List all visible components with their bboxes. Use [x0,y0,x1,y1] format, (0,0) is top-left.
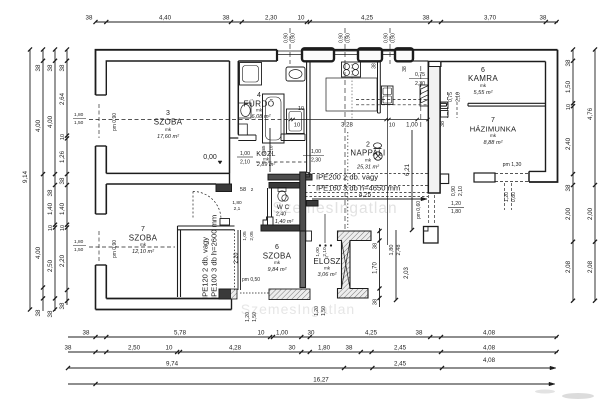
svg-text:38: 38 [47,189,54,196]
svg-text:2,48: 2,48 [396,245,402,256]
bottom dimension chain row 3 [66,357,556,370]
svg-text:4,00: 4,00 [35,246,42,259]
svg-text:pm 0,50: pm 0,50 [242,277,260,283]
szoba6 dotted wall right [234,230,236,290]
svg-text:38: 38 [416,330,423,337]
svg-text:30: 30 [308,330,315,337]
svg-text:10: 10 [60,225,66,231]
svg-text:1,80: 1,80 [74,112,84,118]
svg-text:2,10: 2,10 [322,247,328,257]
svg-text:0,85: 0,85 [261,145,266,154]
svg-text:3,28: 3,28 [341,123,353,129]
svg-text:1,00: 1,00 [276,330,289,337]
svg-text:2,1: 2,1 [234,206,241,212]
top wall pier 2 [358,48,382,61]
left dimension chain column 2 [35,47,45,316]
kitchen axis dashed vertical [344,64,346,230]
vertical dashed axes through top windows [289,28,291,64]
svg-text:1,20: 1,20 [314,306,320,316]
svg-text:6,21: 6,21 [404,163,411,176]
hatch step right of pillar [231,289,238,299]
fürdő bottom wall right piece [281,134,305,141]
svg-text:4,25: 4,25 [365,330,378,337]
svg-text:2,45: 2,45 [394,345,407,352]
door swing szoba7 [193,192,221,220]
svg-text:38: 38 [565,59,572,66]
beam dashed lines over terrace opening [305,192,428,194]
svg-text:1,00: 1,00 [406,123,418,129]
svg-text:1,20: 1,20 [245,312,251,322]
top wall pier 3 [395,48,413,61]
entrance pillar I-block [338,231,372,298]
házimunka door opening dashes [495,172,529,174]
top wall inner line kamra with flue notch [441,61,546,63]
wc bottom wall [261,225,300,231]
svg-text:mk: mk [480,83,487,88]
window parapet labels left wall window2 [73,239,86,253]
svg-text:1,00: 1,00 [311,149,321,155]
közl door jamb line [269,128,271,172]
interior vertical wall szoba3 / fürdő [230,61,239,173]
svg-text:SZOBA: SZOBA [154,118,183,127]
svg-text:9,74: 9,74 [166,361,179,368]
right exterior wall [529,50,558,182]
svg-text:pm 0,60: pm 0,60 [416,201,422,219]
svg-text:2,03: 2,03 [404,267,410,279]
dotted line szoba6 bottom [240,292,270,294]
vertical dim line 6,21 [411,130,413,230]
svg-text:16,27: 16,27 [313,377,329,384]
vertical line with 2,20 near szoba6 [240,230,242,290]
svg-text:2,40: 2,40 [565,137,572,150]
svg-text:IPE100 3 db h=2600 mm: IPE100 3 db h=2600 mm [210,215,219,299]
svg-text:1,80: 1,80 [318,345,331,352]
svg-text:38: 38 [35,64,42,71]
svg-text:3,06 m²: 3,06 m² [318,272,338,278]
bottom exterior wall left section [96,299,232,310]
svg-text:2,45: 2,45 [394,361,407,368]
central wall lower stub with closet box [424,227,439,244]
svg-text:mk: mk [256,108,263,113]
svg-text:0,75: 0,75 [448,92,454,102]
svg-text:W C: W C [277,204,290,211]
svg-text:38: 38 [35,309,42,316]
svg-text:38: 38 [373,243,379,249]
svg-text:38: 38 [47,310,54,317]
right dimension chain column A [565,47,575,302]
left wall window 2 axis [96,264,107,266]
top exterior wall right section outer line [302,49,558,51]
shower tray fürdő [240,63,262,86]
svg-text:10: 10 [566,104,572,110]
left dimension chain column 4 [59,47,69,309]
fürdő bottom wall left piece [238,135,256,141]
svg-text:mk: mk [365,158,372,163]
svg-text:mk: mk [274,260,281,265]
svg-text:1,40 m²: 1,40 m² [275,219,293,225]
wc left step piece [263,217,273,225]
bathtub fürdő [263,94,285,143]
left exterior wall lower segment [96,265,107,310]
svg-text:2,00: 2,00 [587,207,594,220]
left wall window 1 axis [96,145,107,147]
svg-text:1,26: 1,26 [59,150,66,163]
svg-text:4,25: 4,25 [359,192,372,199]
svg-text:4,08: 4,08 [483,345,496,352]
right dimension chain column B [587,47,597,302]
svg-text:38: 38 [372,63,378,69]
svg-text:2: 2 [251,187,254,192]
svg-text:2,10: 2,10 [269,145,274,154]
svg-text:10: 10 [166,345,173,352]
svg-text:mk: mk [165,127,172,132]
svg-text:mk: mk [263,157,270,162]
wall between kamra and házimunka [468,103,546,106]
stairs left of central wall [420,85,428,106]
top wall fürdő segment inner line [238,60,277,62]
kamra shelf fixtures right of central wall [441,102,449,109]
svg-text:1,40: 1,40 [59,202,66,215]
svg-text:9,84 m²: 9,84 m² [268,267,288,273]
dashed door verticals below házimunka door [504,183,506,210]
svg-text:38: 38 [59,177,66,184]
wc right wall / elősz left wall upper [300,172,306,231]
pillar step at wall end [216,184,232,192]
svg-text:12,10 m²: 12,10 m² [132,249,155,255]
svg-text:0,90: 0,90 [346,33,352,43]
kamra door stub and dashes [440,103,446,106]
svg-text:30: 30 [289,345,296,352]
svg-text:1,50: 1,50 [74,120,84,126]
svg-text:1,00: 1,00 [240,151,250,157]
top wall window A (fürdő) [277,50,302,52]
vertical dim line terrace 38/1,70/38 [379,228,381,307]
left dimension chain column 1 overall 9,14 [22,47,32,311]
svg-text:1,50: 1,50 [74,247,84,253]
left exterior wall upper segment with top wall left part [96,50,278,95]
svg-text:pm 0,90: pm 0,90 [112,240,118,258]
kitchen peninsula thin wall [378,62,381,113]
svg-text:2,08: 2,08 [565,260,572,273]
svg-text:pm 1,30: pm 1,30 [503,162,522,168]
svg-text:NAPPALI: NAPPALI [350,149,385,158]
svg-text:1,80: 1,80 [451,209,461,215]
svg-text:2,30: 2,30 [311,158,321,164]
svg-text:4,40: 4,40 [159,15,172,22]
wc upper wall bar [268,174,312,180]
svg-text:5,78: 5,78 [174,330,187,337]
svg-text:IPE200 2 db. vagy: IPE200 2 db. vagy [316,173,378,182]
svg-text:2,50: 2,50 [128,345,141,352]
svg-text:1,40: 1,40 [47,202,54,215]
svg-text:8,88 m²: 8,88 m² [484,140,504,146]
svg-text:2,40: 2,40 [276,212,286,218]
washing machine fürdő [287,109,305,134]
svg-text:4,25: 4,25 [361,15,374,22]
svg-text:10: 10 [298,15,305,22]
svg-text:1,70: 1,70 [373,262,379,274]
házimunka bottom wall left piece [474,173,495,182]
top dimension chain [86,15,559,25]
dimension arrow line 4,25 nappali [312,198,427,200]
svg-text:pm 0,90: pm 0,90 [112,113,118,131]
bottom dimension chain row 2 [65,345,559,355]
svg-text:1,80: 1,80 [74,239,84,245]
svg-text:38: 38 [59,302,66,309]
svg-text:38: 38 [59,64,66,71]
svg-text:0,75: 0,75 [415,72,425,78]
svg-text:0,00: 0,00 [203,154,217,161]
svg-text:38: 38 [47,64,54,71]
svg-text:0,90: 0,90 [384,33,390,43]
niche edge at x412 [412,50,414,61]
svg-text:mk: mk [140,242,147,247]
kitchen counter outline [326,78,377,111]
elősz wall bump [306,231,312,241]
svg-text:2,10: 2,10 [456,92,462,102]
wc left wall lines [268,188,272,225]
bottom dimension chain row 1 [68,330,559,340]
svg-text:38: 38 [540,15,547,22]
svg-text:10: 10 [389,123,395,129]
svg-text:10: 10 [60,134,66,140]
svg-text:38: 38 [83,330,90,337]
svg-text:mk: mk [490,133,497,138]
dimension line at y119 kitchen [289,118,430,129]
svg-text:4: 4 [257,92,261,99]
svg-text:1,20: 1,20 [504,192,510,202]
svg-text:4,76: 4,76 [587,107,594,120]
svg-text:KAMRA: KAMRA [468,74,498,83]
top wall window C [382,50,395,52]
svg-text:2,89 m²: 2,89 m² [256,162,275,168]
wc toilet fürdő [238,124,247,135]
svg-text:2,30: 2,30 [265,15,278,22]
washbasin cabinet fürdő top right [286,67,305,81]
svg-text:1,50: 1,50 [252,312,258,322]
svg-text:4,08: 4,08 [483,330,496,337]
svg-text:1,80: 1,80 [232,200,242,206]
svg-text:2,05: 2,05 [249,231,255,241]
svg-text:4,28: 4,28 [229,345,242,352]
stair axis dashed [420,66,422,130]
svg-text:38: 38 [373,299,379,305]
svg-text:0,90: 0,90 [391,33,397,43]
svg-text:1,80: 1,80 [389,245,395,256]
svg-text:6: 6 [481,67,485,74]
central wall door bump [440,174,449,184]
kitchen appliance box [382,86,394,105]
svg-text:SzemesIngatlan: SzemesIngatlan [272,200,397,217]
svg-text:2: 2 [366,142,370,149]
svg-text:4,00: 4,00 [35,119,42,132]
nappali south wall piece [307,201,319,207]
svg-text:38: 38 [402,66,408,72]
washbasin fürdő [238,103,251,118]
svg-text:0,90: 0,90 [291,33,297,43]
interior wall between szoba3 and szoba7 [106,173,229,184]
elősz left wall lower part [300,231,306,288]
svg-text:2,50: 2,50 [47,259,54,272]
central thick wall nappali/kamra [428,62,440,194]
svg-text:mk: mk [324,266,331,271]
svg-text:38: 38 [440,121,446,127]
svg-text:38: 38 [223,15,230,22]
wc room toilet [278,191,286,201]
vertical dim line 1,80/2,48 [395,230,397,300]
datum dashed line through közl [256,161,306,163]
svg-text:2,10: 2,10 [240,160,250,166]
svg-text:9,14: 9,14 [22,170,29,183]
svg-text:17,60 m²: 17,60 m² [157,134,180,140]
szoba6 planned wall rectangle top [178,226,235,230]
wc top wall [269,183,300,189]
top wall window B [334,50,358,52]
svg-text:4,08: 4,08 [483,357,496,364]
dashed lines wall stub to door [428,195,430,225]
svg-text:0,90: 0,90 [284,33,290,43]
svg-text:7: 7 [141,226,145,233]
svg-text:0,90: 0,90 [451,186,457,196]
svg-text:0,80: 0,80 [511,192,517,202]
svg-text:58: 58 [240,187,246,193]
svg-text:10: 10 [48,225,54,231]
svg-text:38: 38 [86,15,93,22]
kitchen stove with burners [342,62,361,77]
svg-text:1,50: 1,50 [321,306,327,316]
svg-text:10: 10 [294,123,300,129]
svg-text:3,70: 3,70 [484,15,497,22]
extension line through nappali [387,86,389,245]
svg-text:6,08 m²: 6,08 m² [252,114,272,120]
left exterior wall middle segment [96,146,107,214]
svg-text:4,00: 4,00 [47,115,54,128]
dashed passage lines kitchen to kamra door [356,99,428,101]
svg-text:2,20: 2,20 [59,254,66,267]
svg-text:1,05: 1,05 [242,231,248,241]
window parapet labels left wall window1 [73,112,86,126]
svg-text:38: 38 [346,345,353,352]
svg-text:2,10: 2,10 [458,186,464,196]
bottom dimension chain row 4 total 16,27 [68,377,555,387]
svg-text:2,20: 2,20 [234,253,240,264]
left dimension chain column 3 [47,47,57,317]
IPE beam dashed lines nappali [308,173,428,175]
svg-text:2,08: 2,08 [587,260,594,273]
fixture above szoba6 wall [220,219,230,226]
svg-text:6: 6 [275,244,279,251]
svg-text:2,00: 2,00 [565,207,572,220]
szoba6 planned wall left [178,226,181,297]
svg-text:IPE120 2 db. vagy: IPE120 2 db. vagy [201,237,210,299]
svg-text:5,55 m²: 5,55 m² [474,90,494,96]
svg-text:7: 7 [491,117,495,124]
scan smudge bottom right [562,393,594,399]
window sill labels 0,90 pairs above windows [284,33,397,43]
svg-text:1,20: 1,20 [451,201,461,207]
terrace hatch block right of szoba6 [269,289,310,300]
svg-text:2,64: 2,64 [59,92,66,105]
svg-text:10: 10 [258,330,265,337]
svg-text:2,30: 2,30 [415,81,425,87]
elősz door axis line with dots [324,214,326,243]
svg-text:0,90: 0,90 [339,33,345,43]
bottom wall end pillar block [219,289,231,299]
kitchen thin wall [307,61,310,172]
svg-text:3: 3 [166,110,170,117]
svg-text:38: 38 [423,15,430,22]
svg-text:38: 38 [65,345,72,352]
svg-text:38: 38 [565,184,572,191]
szoba6 door line [237,230,239,290]
svg-text:1,00: 1,00 [315,247,321,257]
svg-text:1,50: 1,50 [565,80,572,93]
top wall pier 1 [302,48,334,61]
svg-text:25,31 m²: 25,31 m² [356,165,380,171]
